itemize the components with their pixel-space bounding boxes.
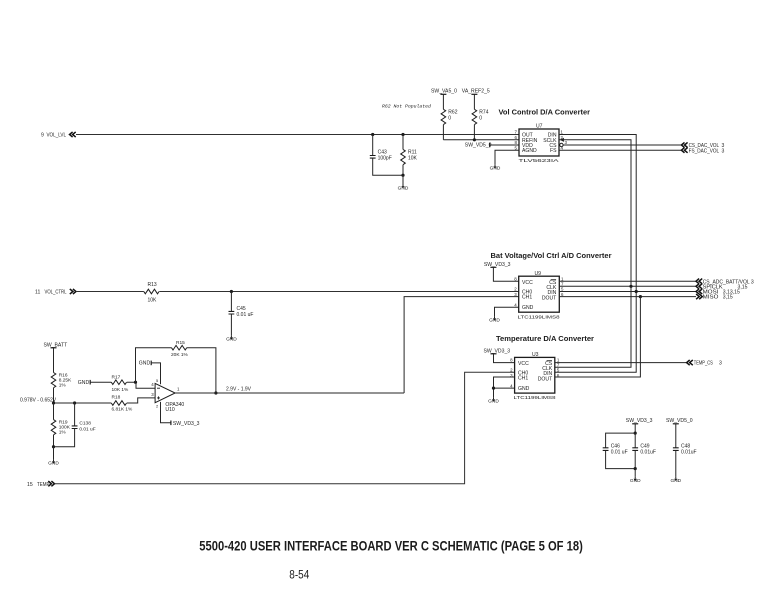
- ground below R11: [398, 175, 409, 191]
- wire U9 DIN to off-page: [559, 291, 696, 293]
- power flag VA_REF2_5: [462, 89, 490, 95]
- wire op-amp output: [175, 392, 404, 394]
- svg-text:SW_VD3_3: SW_VD3_3: [484, 262, 511, 268]
- svg-text:R13: R13: [148, 282, 157, 288]
- power pin to SW_VD3_3: [161, 402, 200, 427]
- svg-text:10K: 10K: [408, 156, 418, 162]
- wire U9 CLK to off-page: [559, 285, 696, 287]
- junction CH1/GND: [492, 387, 495, 390]
- svg-text:GND: GND: [522, 305, 534, 311]
- wire R18 to non-inverting input: [127, 398, 155, 403]
- svg-text:MISO: MISO: [703, 295, 719, 301]
- wire U7 FS to off-page: [559, 149, 681, 151]
- off-page connector 9 VOL_LVL: [41, 132, 76, 139]
- wire U9 DOUT to off-page: [559, 296, 696, 298]
- inversion bubble CS pin 3: [560, 143, 563, 146]
- resistor R62 0: [441, 94, 458, 140]
- ADC U3 LTC1199 box: [510, 352, 560, 401]
- resistor R17 10K 1%: [90, 374, 129, 393]
- svg-text:FS: FS: [550, 148, 557, 154]
- wire U9 GND pin to ground: [495, 307, 519, 316]
- svg-text:GND: GND: [518, 386, 530, 392]
- svg-text:TLV5623IA: TLV5623IA: [519, 158, 560, 164]
- svg-text:0.01 uF: 0.01 uF: [79, 427, 95, 433]
- wire R17 to inverting input: [127, 382, 155, 388]
- svg-text:8: 8: [510, 357, 513, 362]
- power flag SW_VA5_0: [431, 89, 457, 95]
- capacitor C43: [370, 135, 403, 176]
- svg-text:VCC: VCC: [522, 280, 533, 286]
- op-amp U7 DAC box TLV5623IA: [515, 124, 568, 165]
- svg-text:5: 5: [156, 378, 159, 383]
- svg-text:TEMP_CS: TEMP_CS: [694, 361, 713, 367]
- svg-text:SW_VD3_3: SW_VD3_3: [484, 348, 511, 354]
- wire VOL_LVL to U7 OUT: [76, 134, 519, 136]
- svg-text:0.01uF: 0.01uF: [640, 449, 656, 455]
- svg-text:10K: 10K: [148, 297, 158, 303]
- svg-text:3: 3: [151, 392, 154, 397]
- junction feedback on R17 wire: [134, 381, 137, 384]
- svg-text:0.01 uF: 0.01 uF: [611, 449, 628, 455]
- svg-text:0.01uF: 0.01uF: [681, 449, 697, 455]
- svg-text:0: 0: [479, 115, 482, 121]
- svg-text:6: 6: [561, 292, 564, 297]
- capacitor C48 0.01uF: [673, 424, 697, 477]
- wire op-amp output up to U9 CH1: [404, 297, 519, 393]
- svg-text:1%: 1%: [59, 430, 67, 436]
- off-page connector 15 TEMP: [27, 481, 55, 488]
- junction CLK bus: [629, 285, 632, 288]
- svg-text:5: 5: [515, 145, 518, 150]
- ground below R19: [48, 447, 59, 467]
- resistor R11 10K: [401, 135, 418, 176]
- resistor R13 10K: [144, 282, 159, 304]
- ground flag feeding R17: [78, 380, 90, 386]
- svg-text:0: 0: [448, 115, 451, 121]
- svg-text:Temperature D/A Converter: Temperature D/A Converter: [496, 334, 594, 343]
- wire U3 CH1 to ground net: [494, 377, 515, 388]
- svg-text:Vol Control D/A Converter: Vol Control D/A Converter: [499, 108, 591, 117]
- junction feedback at output: [214, 391, 217, 394]
- svg-text:10K 1%: 10K 1%: [112, 387, 130, 393]
- svg-text:9: 9: [41, 133, 44, 139]
- svg-text:7: 7: [515, 130, 518, 135]
- svg-text:U7: U7: [536, 124, 543, 130]
- power flag SW_VD5_0 cap: [666, 418, 693, 424]
- svg-text:0.978V - 0.652V: 0.978V - 0.652V: [20, 397, 57, 403]
- svg-text:R15: R15: [176, 340, 185, 346]
- junction caps bottom: [634, 467, 637, 470]
- junction caps top: [634, 432, 637, 435]
- svg-text:2.9V - 1.9V: 2.9V - 1.9V: [226, 387, 252, 393]
- junction node left: [52, 401, 55, 404]
- svg-text:4: 4: [151, 382, 154, 387]
- svg-text:SW_VD3_3: SW_VD3_3: [626, 418, 653, 424]
- off-page connector TEMP_CS 3: [687, 360, 722, 367]
- svg-text:11: 11: [35, 290, 40, 296]
- off-page connector CS_ADC_BATT/VOL 3: [696, 279, 754, 286]
- power flag SW_VD5_0 to VDD: [465, 143, 519, 149]
- svg-text:VOL_LVL: VOL_LVL: [47, 133, 67, 139]
- junction C43 tap: [371, 133, 374, 136]
- off-page connector FS_DAC_VOL 3: [681, 148, 724, 155]
- op-amp U10 OPA340: [151, 378, 184, 413]
- wire U3 GND pin: [494, 388, 515, 397]
- svg-text:U3: U3: [532, 352, 539, 358]
- svg-text:3: 3: [751, 279, 754, 285]
- ADC U9 LTC1199 box: [514, 271, 564, 321]
- off-page connector CS_DAC_VOL 3: [681, 142, 724, 149]
- svg-text:DOUT: DOUT: [542, 295, 556, 301]
- wire TEMP to U3 CH0: [55, 372, 515, 483]
- junction DOUT bus: [639, 295, 642, 298]
- svg-text:8: 8: [514, 276, 517, 281]
- clock mark SCLK: [560, 138, 564, 142]
- svg-text:U9: U9: [535, 271, 542, 277]
- svg-text:1: 1: [561, 130, 564, 135]
- svg-text:SW_VD5_0: SW_VD5_0: [465, 143, 492, 149]
- svg-text:R18: R18: [112, 395, 121, 401]
- off-page connector SPICLK 3,15: [696, 284, 748, 291]
- wire U7 SCLK down to U3 CLK: [555, 140, 631, 367]
- svg-text:U10: U10: [165, 407, 175, 413]
- svg-text:0.01 uF: 0.01 uF: [237, 312, 254, 318]
- wire R13 to U9 CH0: [159, 291, 518, 293]
- power flag SW_VD3_3 caps: [626, 418, 653, 433]
- off-page connector MOSI 3,13,15: [696, 289, 740, 296]
- svg-text:FS_DAC_VOL: FS_DAC_VOL: [689, 148, 720, 154]
- svg-text:LTC1199LIMS8: LTC1199LIMS8: [518, 314, 560, 320]
- capacitor C46 0.01uF: [603, 433, 636, 469]
- svg-text:R62 Not Populated: R62 Not Populated: [382, 104, 431, 110]
- svg-text:6.81K 1%: 6.81K 1%: [112, 406, 134, 412]
- svg-text:100pF: 100pF: [378, 156, 392, 162]
- ground flag op-amp V+: [139, 361, 161, 385]
- svg-text:R17: R17: [112, 374, 121, 380]
- wire AGND to ground: [495, 150, 519, 164]
- svg-text:VCC: VCC: [518, 361, 529, 367]
- off-page connector MISO 3,15: [696, 294, 733, 301]
- ground below C48: [670, 477, 681, 484]
- off-page connector 11 VOL_CTRL: [35, 289, 76, 296]
- svg-text:DOUT: DOUT: [538, 376, 552, 382]
- power flag SW_VD3_3 for U3: [484, 348, 515, 362]
- svg-text:TEMP: TEMP: [37, 482, 50, 488]
- svg-text:20K 1%: 20K 1%: [171, 352, 189, 358]
- ground below C49: [630, 469, 641, 485]
- svg-text:GND: GND: [139, 361, 151, 367]
- svg-text:CH1: CH1: [518, 376, 528, 382]
- wire U7 CS to off-page: [563, 144, 681, 146]
- svg-text:LTC1199LIMS8: LTC1199LIMS8: [514, 395, 556, 401]
- power flag SW_VD3_3 for U9: [484, 262, 519, 281]
- junction R74 on REFIN: [473, 138, 476, 141]
- power flag SW_BATT: [44, 342, 68, 348]
- svg-text:1%: 1%: [59, 383, 67, 389]
- wire U3 CS to off-page: [555, 362, 687, 364]
- svg-text:GND: GND: [78, 380, 90, 386]
- junction R11 top: [401, 133, 404, 136]
- wire divider node row: [54, 402, 112, 404]
- svg-text:15: 15: [27, 482, 33, 488]
- svg-text:SW_VD3_3: SW_VD3_3: [173, 421, 200, 427]
- ground below U3: [488, 397, 499, 404]
- svg-text:VOL_CTRL: VOL_CTRL: [45, 290, 67, 296]
- junction R11 bottom: [401, 174, 404, 177]
- wire U9 DOUT down to U3 DOUT: [555, 297, 641, 377]
- ground below C45: [226, 335, 237, 342]
- resistor R15 20K 1% feedback: [136, 340, 216, 393]
- ground below U7 AGND: [490, 164, 501, 171]
- svg-text:3: 3: [514, 292, 517, 297]
- svg-text:SW_VA5_0: SW_VA5_0: [431, 89, 457, 95]
- resistor R16 8.25K 1%: [51, 348, 72, 403]
- svg-text:8-54: 8-54: [289, 569, 310, 581]
- wire U9 CS to off-page: [559, 280, 696, 282]
- junction C45 tap: [230, 290, 233, 293]
- resistor R74 0: [472, 94, 489, 140]
- resistor R19 100K 1%: [51, 403, 71, 447]
- svg-text:C138: C138: [79, 421, 91, 427]
- junction R19 bottom: [52, 445, 55, 448]
- wire VOL_CTRL to R13: [76, 291, 144, 293]
- svg-text:SW_VD5_0: SW_VD5_0: [666, 418, 693, 424]
- svg-text:AGND: AGND: [522, 148, 537, 154]
- svg-text:2: 2: [156, 403, 159, 408]
- svg-text:3: 3: [722, 148, 725, 154]
- capacitor C138 0.01uF: [54, 403, 96, 447]
- svg-text:3: 3: [565, 140, 568, 145]
- capacitor C49 0.01uF: [632, 433, 656, 469]
- svg-text:CH1: CH1: [522, 295, 532, 301]
- wire REFIN row: [443, 139, 519, 141]
- resistor R18 6.81K 1%: [111, 395, 133, 413]
- svg-text:Bat Voltage/Vol Ctrl A/D Conve: Bat Voltage/Vol Ctrl A/D Converter: [491, 251, 612, 260]
- svg-text:3: 3: [719, 361, 722, 367]
- junction DIN bus: [635, 290, 638, 293]
- svg-text:1: 1: [177, 387, 180, 392]
- svg-text:VA_REF2_5: VA_REF2_5: [462, 89, 490, 95]
- svg-text:5500-420 USER INTERFACE BOARD: 5500-420 USER INTERFACE BOARD VER C SCHE…: [199, 539, 583, 554]
- wire U7 DIN down to U3 DIN: [555, 135, 636, 373]
- junction C138 tap: [73, 401, 76, 404]
- svg-text:4: 4: [514, 302, 517, 307]
- svg-text:3,15: 3,15: [723, 295, 733, 301]
- capacitor C45 0.01uF: [229, 292, 254, 336]
- ground below U9: [489, 316, 500, 323]
